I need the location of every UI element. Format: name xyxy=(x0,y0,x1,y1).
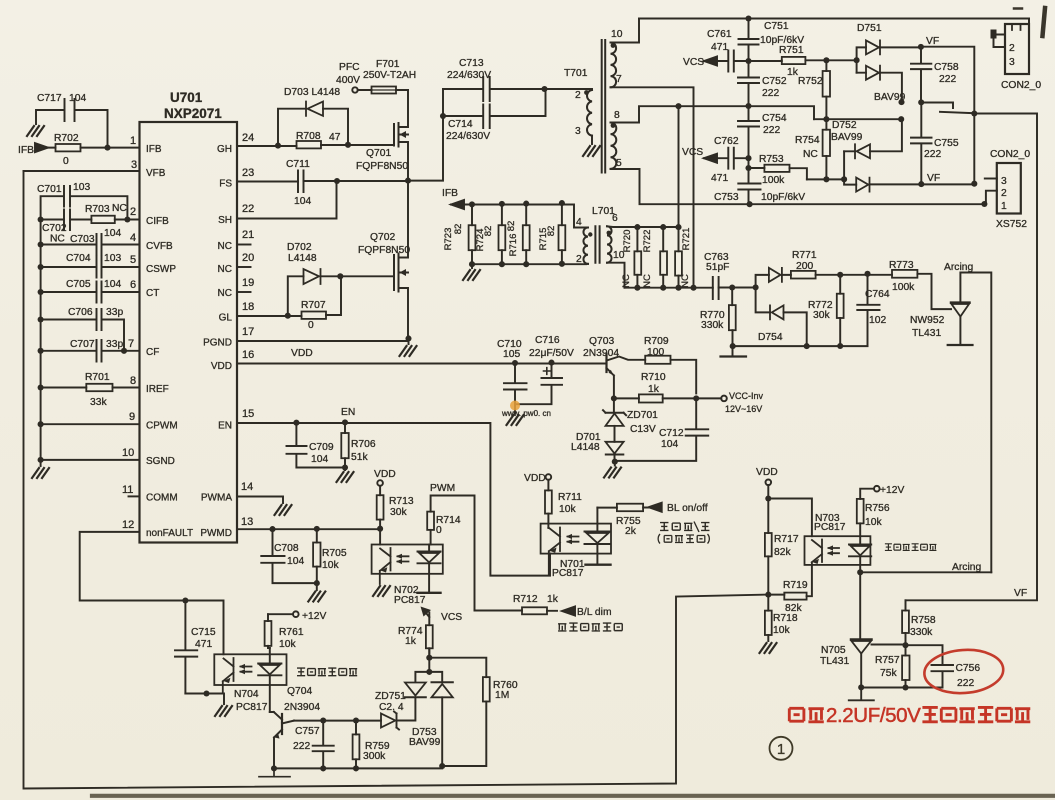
svg-text:D702: D702 xyxy=(287,242,312,253)
diode D753 dual right xyxy=(432,684,453,697)
svg-text:Q703: Q703 xyxy=(589,336,614,347)
svg-text:IREF: IREF xyxy=(146,384,169,395)
svg-text:B/L dim: B/L dim xyxy=(577,607,612,618)
svg-text:10: 10 xyxy=(122,447,134,459)
ground PGND xyxy=(400,346,417,356)
capacitor C715 xyxy=(175,601,197,694)
svg-text:222: 222 xyxy=(957,678,974,689)
resistor R760 xyxy=(429,658,486,766)
svg-text:10k: 10k xyxy=(322,560,339,571)
ground bar R770 xyxy=(721,355,747,357)
wire L701 pin6 xyxy=(607,225,679,228)
terminal VDD R713 xyxy=(377,480,383,486)
wire pin12 nonFAULT loop xyxy=(80,532,224,654)
svg-text:104: 104 xyxy=(661,439,678,450)
svg-text:10k: 10k xyxy=(773,625,790,636)
resistor R773 xyxy=(892,270,917,278)
red repair note 并接2.2UF/50V解决黑屏故障 xyxy=(789,707,1030,721)
svg-text:R720: R720 xyxy=(622,230,633,253)
svg-text:VF: VF xyxy=(927,173,940,184)
svg-text:104: 104 xyxy=(69,93,86,104)
wire pin16 VDD bus xyxy=(237,363,606,365)
svg-text:14: 14 xyxy=(241,481,253,493)
resistor R752 xyxy=(825,60,827,119)
transistor Q702 FQPF8N50 xyxy=(393,255,395,290)
svg-text:C708: C708 xyxy=(274,543,299,554)
resistor R755 xyxy=(597,507,649,509)
zener ZD701 C13V xyxy=(613,398,615,412)
wire N703 collector feed xyxy=(768,499,812,537)
svg-text:Q701: Q701 xyxy=(366,148,391,159)
resistor R720 NC xyxy=(636,227,638,288)
svg-text:BAV99: BAV99 xyxy=(409,737,441,748)
svg-text:R753: R753 xyxy=(759,154,784,165)
svg-text:PC817: PC817 xyxy=(394,595,426,606)
svg-text:SGND: SGND xyxy=(146,456,175,467)
svg-text:30k: 30k xyxy=(813,310,830,321)
svg-text:VDD: VDD xyxy=(291,348,313,359)
svg-text:7: 7 xyxy=(128,338,134,350)
wire left border VFB loop xyxy=(24,171,769,789)
ground bank xyxy=(471,264,473,268)
ground C710 xyxy=(514,405,516,413)
optocoupler N702 PC817 xyxy=(372,545,443,574)
svg-text:CPWM: CPWM xyxy=(146,421,178,432)
capacitor C753 xyxy=(738,158,760,204)
svg-text:9: 9 xyxy=(129,411,135,423)
corner mark top right xyxy=(1043,8,1046,36)
top rail xyxy=(639,19,1029,25)
svg-text:NXP2071: NXP2071 xyxy=(164,106,222,121)
svg-text:GL: GL xyxy=(219,313,233,324)
svg-text:PC817: PC817 xyxy=(552,568,584,579)
svg-text:C712: C712 xyxy=(659,428,684,439)
svg-text:104: 104 xyxy=(104,279,121,290)
wire pin1 IFB xyxy=(48,147,140,149)
wire T701 pin2 feed xyxy=(545,88,593,90)
svg-text:CT: CT xyxy=(146,288,159,299)
svg-text:VDD: VDD xyxy=(374,469,396,480)
resistor R771 xyxy=(791,271,816,279)
svg-text:R713: R713 xyxy=(389,496,414,507)
wire pin10 to top rail xyxy=(611,19,640,43)
wire pin18 GL xyxy=(237,276,341,316)
svg-text:21: 21 xyxy=(242,229,254,241)
svg-text:VDD: VDD xyxy=(524,473,546,484)
ground bar N702 LED xyxy=(418,592,441,594)
ground bar N705 xyxy=(849,687,874,700)
svg-text:VFB: VFB xyxy=(146,168,166,179)
wire pin20 NC stub xyxy=(237,266,251,268)
svg-text:1: 1 xyxy=(777,741,785,758)
wire pin9 CPWM xyxy=(41,423,140,425)
optocoupler N704 PC817 xyxy=(214,654,286,685)
transformer L701 left winding xyxy=(583,228,588,264)
svg-text:104: 104 xyxy=(104,228,121,239)
N702 LED xyxy=(418,545,441,593)
capacitor C713 xyxy=(443,77,545,101)
svg-text:102: 102 xyxy=(869,315,886,326)
svg-text:10: 10 xyxy=(611,29,623,40)
svg-text:4: 4 xyxy=(576,217,582,228)
diode D752 dual BAV99 upper xyxy=(844,119,902,151)
svg-text:XS752: XS752 xyxy=(996,219,1027,230)
capacitor C710 xyxy=(504,363,527,405)
left bus vertical xyxy=(40,220,42,461)
ground bar N701 LED xyxy=(586,564,611,566)
svg-text:222: 222 xyxy=(293,741,310,752)
diode D754 lower xyxy=(756,287,807,346)
svg-text:33p: 33p xyxy=(106,307,123,318)
ground N702 xyxy=(373,586,390,596)
capacitor C754 xyxy=(738,106,759,158)
svg-text:100k: 100k xyxy=(892,282,915,293)
N704 LED xyxy=(258,648,281,712)
svg-text:L4148: L4148 xyxy=(288,253,317,264)
svg-text:200: 200 xyxy=(796,261,813,272)
VCS arrow R774 xyxy=(424,611,429,618)
svg-text:nonFAULT: nonFAULT xyxy=(146,528,193,539)
svg-text:10k: 10k xyxy=(865,517,882,528)
svg-text:PC817: PC817 xyxy=(814,522,846,533)
resistor R715 xyxy=(561,203,563,264)
svg-text:1k: 1k xyxy=(547,594,559,605)
svg-text:VF: VF xyxy=(1014,588,1027,599)
CJK label 背光开/关 xyxy=(660,522,709,533)
resistor R714 xyxy=(427,512,434,530)
B/L dim arrow xyxy=(562,607,575,616)
svg-text:2: 2 xyxy=(1001,188,1007,199)
spark gap electrodes xyxy=(921,103,974,114)
svg-text:NC: NC xyxy=(218,241,232,252)
svg-text:NC: NC xyxy=(112,203,127,214)
resistor R723 xyxy=(471,204,473,264)
svg-text:2: 2 xyxy=(576,254,582,265)
pin2 jog xyxy=(986,191,997,204)
svg-text:C756: C756 xyxy=(956,663,981,674)
terminal +12V R761 xyxy=(268,613,293,615)
N701 LED xyxy=(585,508,611,565)
CJK label 灯管过压保护 N703 xyxy=(885,544,937,551)
capacitor C762 + VCS arrow xyxy=(704,154,717,163)
svg-text:51pF: 51pF xyxy=(706,262,729,273)
svg-text:CIFB: CIFB xyxy=(146,216,169,227)
wire pin8 IREF + resistor R701 xyxy=(41,387,140,389)
resistor R705 xyxy=(316,529,318,590)
svg-text:U701: U701 xyxy=(170,90,203,105)
resistor R707 xyxy=(302,312,327,319)
svg-text:GH: GH xyxy=(217,144,232,155)
svg-text:0: 0 xyxy=(308,320,314,331)
svg-text:C715: C715 xyxy=(191,627,216,638)
svg-text:5: 5 xyxy=(616,158,622,169)
ground below C717 xyxy=(27,126,44,136)
pin1 node xyxy=(981,201,987,207)
svg-text:330k: 330k xyxy=(701,320,724,331)
resistor R706 xyxy=(344,422,346,470)
svg-text:17: 17 xyxy=(242,326,254,338)
svg-text:R702: R702 xyxy=(54,133,79,144)
wire pin19 NC stub xyxy=(237,291,251,293)
svg-text:16: 16 xyxy=(242,349,254,361)
shunt reg NW952 TL431 xyxy=(951,301,970,304)
watermark dot xyxy=(510,401,520,411)
svg-text:NW952: NW952 xyxy=(910,315,945,326)
fuse F701 xyxy=(352,87,357,92)
wire pin10 SGND xyxy=(41,459,140,461)
svg-text:CF: CF xyxy=(146,347,159,358)
resistor R717 xyxy=(767,499,769,595)
resistor R770 xyxy=(731,288,733,357)
svg-text:R712: R712 xyxy=(513,594,538,605)
svg-text:T701: T701 xyxy=(564,68,588,79)
resistor R709 xyxy=(645,356,670,364)
svg-text:1: 1 xyxy=(1001,201,1007,212)
svg-text:ZD701: ZD701 xyxy=(627,410,658,421)
diode D701 L4148 xyxy=(614,426,616,442)
terminal VCC-Inv xyxy=(696,397,721,399)
svg-text:C706: C706 xyxy=(68,307,93,318)
svg-text:C762: C762 xyxy=(714,136,739,147)
svg-text:NC: NC xyxy=(621,274,632,288)
svg-text:PWMA: PWMA xyxy=(201,493,232,504)
svg-text:D752: D752 xyxy=(832,120,857,131)
terminal +12V R756 xyxy=(860,489,874,499)
svg-text:CON2_0: CON2_0 xyxy=(1001,80,1041,91)
svg-text:C707: C707 xyxy=(70,339,95,350)
ground R705 xyxy=(308,592,325,602)
resistor R759 xyxy=(355,721,357,769)
resistor R718 xyxy=(767,595,769,641)
svg-text:+12V: +12V xyxy=(880,485,904,496)
svg-text:PGND: PGND xyxy=(203,338,232,349)
wire pin15 EN xyxy=(237,423,550,576)
transistor Q701 FQPF8N50 xyxy=(393,124,395,146)
svg-text:VDD: VDD xyxy=(211,361,232,372)
T701 core xyxy=(602,40,606,173)
N703 LED xyxy=(849,523,871,572)
svg-text:224/630V: 224/630V xyxy=(447,70,491,81)
svg-text:C717: C717 xyxy=(37,93,62,104)
red circle highlight C756 xyxy=(923,647,1005,695)
wire gate Q702 xyxy=(340,275,394,277)
diode D754 dual BAV99 upper xyxy=(756,275,791,288)
svg-text:R710: R710 xyxy=(641,372,666,383)
wire pin3 VFB to left border xyxy=(24,170,140,172)
svg-text:R721: R721 xyxy=(681,228,692,251)
svg-text:VCS: VCS xyxy=(441,612,462,623)
svg-text:222: 222 xyxy=(762,88,779,99)
pin3 stub xyxy=(985,178,997,180)
svg-text:PWMD: PWMD xyxy=(200,528,232,539)
svg-text:19: 19 xyxy=(242,277,254,289)
svg-text:R761: R761 xyxy=(279,627,304,638)
wire bottom row to C763 xyxy=(625,287,756,289)
svg-text:Q704: Q704 xyxy=(287,686,312,697)
capacitor C764 xyxy=(857,274,879,346)
svg-text:20: 20 xyxy=(242,252,254,264)
wire C715 bottom to opto xyxy=(185,694,224,705)
svg-text:NC: NC xyxy=(50,234,65,245)
node junction pin1 xyxy=(104,145,110,151)
svg-text:VCC-Inv: VCC-Inv xyxy=(729,391,764,401)
svg-text:33k: 33k xyxy=(90,397,107,408)
svg-text:CVFB: CVFB xyxy=(146,241,173,252)
svg-text:51k: 51k xyxy=(351,452,368,463)
resistor R719 xyxy=(768,565,812,596)
L701 core xyxy=(595,226,599,262)
pin names xyxy=(146,144,232,539)
resistor R721 NC xyxy=(678,106,680,288)
page bottom edge band xyxy=(92,794,1055,798)
wire pin14 PWMA xyxy=(237,497,283,504)
svg-text:C764: C764 xyxy=(865,289,890,300)
svg-text:18: 18 xyxy=(242,301,254,313)
svg-text:100k: 100k xyxy=(762,175,785,186)
svg-text:R703: R703 xyxy=(85,204,110,215)
wire pin2 CIFB xyxy=(41,219,140,221)
svg-text:C705: C705 xyxy=(66,279,91,290)
ground bar Q704 xyxy=(259,768,290,776)
terminal VDD R711 xyxy=(546,474,552,480)
svg-text:Arcing: Arcing xyxy=(944,262,973,273)
svg-text:82k: 82k xyxy=(774,547,791,558)
svg-text:250V-T2AH: 250V-T2AH xyxy=(363,70,416,81)
svg-text:82: 82 xyxy=(546,226,557,237)
resistor R724 xyxy=(501,204,503,264)
IFB input arrow xyxy=(35,143,48,152)
wire pin4 CVFB + capacitor C703 xyxy=(41,234,140,255)
svg-text:103: 103 xyxy=(104,253,121,264)
svg-text:R773: R773 xyxy=(889,260,914,271)
connector CON2_0 top xyxy=(1005,24,1029,74)
resistor R753 xyxy=(749,168,807,179)
svg-text:11: 11 xyxy=(122,484,133,496)
svg-text:NC: NC xyxy=(803,149,818,160)
svg-text:1k: 1k xyxy=(405,636,417,647)
svg-text:R751: R751 xyxy=(779,45,804,56)
wire PWM net xyxy=(431,496,475,611)
svg-text:C714: C714 xyxy=(448,119,473,130)
svg-text:222: 222 xyxy=(763,125,780,136)
wire pin7 long drop xyxy=(611,87,694,287)
svg-text:47: 47 xyxy=(329,132,341,143)
CJK label 背光脉宽调光 xyxy=(558,623,622,631)
svg-text:R706: R706 xyxy=(351,439,376,450)
optocoupler N701 PC817 xyxy=(541,524,611,554)
resistor R722 NC xyxy=(662,227,664,288)
capacitor C714 xyxy=(443,89,546,128)
svg-text:CSWP: CSWP xyxy=(146,264,176,275)
wire arcing row xyxy=(860,571,991,573)
svg-text:C703: C703 xyxy=(70,234,95,245)
svg-text:R754: R754 xyxy=(795,135,820,146)
svg-text:10: 10 xyxy=(613,250,625,261)
diode D753 dual left xyxy=(415,648,442,682)
svg-text:BL on/off: BL on/off xyxy=(667,503,708,514)
svg-text:F701: F701 xyxy=(376,59,400,70)
svg-text:6: 6 xyxy=(130,279,136,291)
svg-text:0: 0 xyxy=(436,525,442,536)
capacitor C752 xyxy=(738,61,759,106)
svg-text:C757: C757 xyxy=(295,726,320,737)
diode D702 L4148 xyxy=(288,276,341,315)
svg-text:2N3904: 2N3904 xyxy=(583,348,619,359)
svg-text:82: 82 xyxy=(453,224,464,235)
wire R712 net xyxy=(475,610,558,612)
resistor R703 xyxy=(91,216,114,223)
svg-text:3: 3 xyxy=(1001,176,1007,187)
svg-text:NC: NC xyxy=(680,274,691,288)
svg-text:D751: D751 xyxy=(857,23,882,34)
svg-text:R756: R756 xyxy=(865,503,890,514)
wire IFB resistor bank top xyxy=(451,205,588,228)
wire L701 pin10 xyxy=(607,263,625,288)
wire pin11 COMM stub xyxy=(129,495,140,497)
svg-text:100: 100 xyxy=(647,347,664,358)
wire arcing right rail xyxy=(906,114,1038,601)
svg-text:103: 103 xyxy=(73,182,90,193)
svg-text:300k: 300k xyxy=(363,751,386,762)
svg-text:3: 3 xyxy=(131,159,137,171)
svg-text:10pF/6kV: 10pF/6kV xyxy=(761,192,805,203)
svg-text:3: 3 xyxy=(575,126,581,137)
svg-text:C701: C701 xyxy=(37,184,62,195)
svg-text:R705: R705 xyxy=(322,548,347,559)
ground D701 xyxy=(614,462,616,466)
svg-text:4: 4 xyxy=(130,232,136,244)
capacitor C711 xyxy=(298,171,304,193)
resistor R710 xyxy=(639,394,663,402)
resistor R774 xyxy=(428,613,430,658)
svg-text:7: 7 xyxy=(616,74,622,85)
capacitor C706 branch xyxy=(41,309,124,351)
capacitor C709 xyxy=(287,423,346,468)
svg-text:24: 24 xyxy=(242,132,254,144)
svg-text:BAV99: BAV99 xyxy=(831,132,863,143)
capacitor C756 loop xyxy=(861,645,953,687)
svg-text:22μF/50V: 22μF/50V xyxy=(529,348,574,359)
svg-text:8: 8 xyxy=(614,110,620,121)
wire C714 node down to FS line xyxy=(408,116,443,181)
svg-text:222: 222 xyxy=(924,149,941,160)
CJK label 灯管过流保护 N704 xyxy=(297,668,357,676)
svg-text:104: 104 xyxy=(311,454,328,465)
svg-text:CON2_0: CON2_0 xyxy=(990,149,1030,160)
resistor R761 xyxy=(268,614,270,648)
BL on/off arrow xyxy=(649,503,662,512)
capacitor bus C751 xyxy=(739,19,759,62)
wire bottom row xyxy=(274,766,486,768)
wire pin5 CSWP + capacitor C704 xyxy=(41,257,140,278)
svg-text:23: 23 xyxy=(242,167,254,179)
resistor R716 xyxy=(525,204,527,265)
svg-text:82: 82 xyxy=(483,226,494,237)
ground PWMA xyxy=(275,505,292,515)
svg-text:3: 3 xyxy=(1009,57,1015,68)
svg-text:8: 8 xyxy=(130,375,136,387)
transformer T701 secondary lower coil pins 8-5 xyxy=(611,123,617,169)
svg-text:NC: NC xyxy=(218,264,232,275)
svg-text:R719: R719 xyxy=(783,580,808,591)
svg-text:471: 471 xyxy=(711,42,728,53)
svg-text:IFB: IFB xyxy=(18,145,34,156)
svg-text:+12V: +12V xyxy=(302,611,326,622)
capacitor C758 xyxy=(911,47,931,102)
transformer T701 secondary upper coil pins 10-7 xyxy=(611,43,617,88)
capacitor C757 xyxy=(313,721,334,769)
svg-text:224/630V: 224/630V xyxy=(446,131,490,142)
